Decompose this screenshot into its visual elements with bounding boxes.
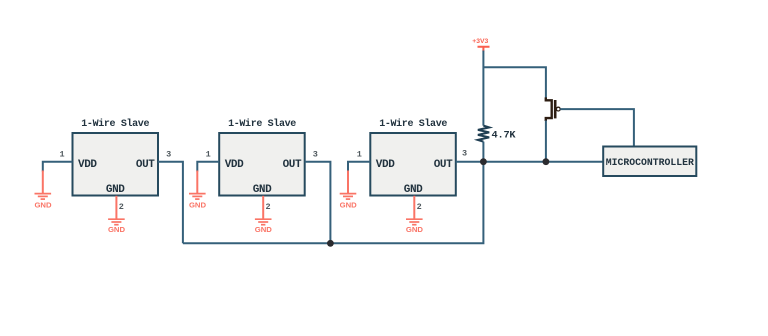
junction node at Q1 source / bus (543, 158, 550, 165)
ground symbol (U1 pin 2) (108, 219, 125, 225)
svg-text:GND: GND (255, 225, 273, 234)
svg-text:4.7K: 4.7K (492, 130, 517, 142)
ground symbol (U3 pin 2) (406, 219, 423, 225)
svg-text:MICROCONTROLLER: MICROCONTROLLER (606, 157, 694, 168)
svg-text:GND: GND (108, 225, 126, 234)
svg-text:VDD: VDD (225, 159, 244, 171)
svg-text:2: 2 (119, 202, 124, 212)
U3 pin 3 wire (OUT to node) (456, 161, 484, 163)
wire Q1 source to bus (545, 121, 547, 162)
U2 pin 1 ground lead (196, 171, 198, 194)
svg-text:2: 2 (266, 202, 271, 212)
svg-text:3: 3 (313, 150, 318, 160)
svg-text:GND: GND (34, 201, 52, 210)
svg-text:GND: GND (106, 184, 125, 196)
U1 pin 2 wire (GND) (115, 196, 117, 219)
wire Q1 gate to microcontroller (560, 109, 634, 146)
svg-text:1-Wire Slave: 1-Wire Slave (228, 118, 296, 130)
svg-text:GND: GND (253, 184, 272, 196)
svg-text:3: 3 (166, 150, 171, 160)
ground symbol (U2 pin 1) (189, 194, 206, 200)
1-Wire slave U3 box (370, 118, 456, 196)
svg-text:OUT: OUT (434, 159, 453, 171)
svg-text:1-Wire Slave: 1-Wire Slave (81, 118, 149, 130)
U2 pin 3 wire (OUT to bus) (305, 162, 331, 244)
U1 pin 1 ground lead (42, 171, 44, 194)
svg-text:GND: GND (340, 201, 358, 210)
svg-text:OUT: OUT (283, 159, 302, 171)
U1 pin 1 wire (VDD) (43, 162, 73, 172)
svg-text:VDD: VDD (376, 159, 395, 171)
svg-text:+3V3: +3V3 (472, 38, 488, 45)
svg-text:3: 3 (462, 148, 467, 158)
1-Wire slave U2 box (219, 118, 305, 196)
wire 1-wire bus (bottom) (183, 162, 484, 244)
svg-text:1: 1 (59, 150, 64, 160)
svg-text:GND: GND (404, 184, 423, 196)
transistor Q1 (546, 97, 560, 121)
U1 pin 3 wire (OUT to bus) (158, 162, 183, 244)
microcontroller U4 box (603, 147, 696, 177)
svg-text:GND: GND (189, 201, 207, 210)
ground symbol (U2 pin 2) (255, 219, 272, 225)
wire +3V3 to resistor R1 (482, 51, 484, 126)
svg-text:1: 1 (206, 150, 211, 160)
svg-text:1: 1 (357, 150, 362, 160)
U2 pin 1 wire (VDD) (197, 162, 219, 172)
svg-text:1-Wire Slave: 1-Wire Slave (379, 118, 447, 130)
power symbol +3V3 (472, 38, 489, 51)
svg-text:2: 2 (417, 202, 422, 212)
junction node at U2 OUT / bus (327, 240, 334, 247)
junction node at R1 / OUT3 / bus (480, 158, 487, 165)
svg-text:OUT: OUT (136, 159, 155, 171)
ground symbol (U3 pin 1) (340, 194, 357, 200)
svg-text:VDD: VDD (78, 159, 97, 171)
U3 pin 1 wire (VDD) (348, 162, 370, 172)
1-Wire slave U1 box (73, 118, 159, 196)
wire branch to Q1 drain (483, 67, 546, 97)
wire bus node to microcontroller (483, 161, 603, 163)
ground symbol (U1 pin 1) (35, 194, 52, 200)
U2 pin 2 wire (GND) (262, 196, 264, 219)
U3 pin 2 wire (GND) (413, 196, 415, 219)
U3 pin 1 ground lead (347, 171, 349, 194)
svg-text:GND: GND (406, 225, 424, 234)
wire R1 to bus node (482, 142, 484, 162)
resistor R1 (478, 126, 489, 142)
